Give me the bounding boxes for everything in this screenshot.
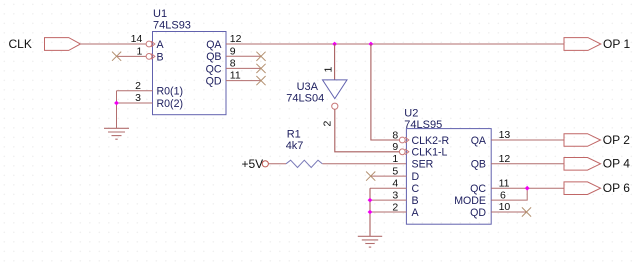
wire U2 QD stub bbox=[491, 211, 526, 213]
svg-text:OP 4: OP 4 bbox=[603, 157, 630, 171]
wire U1 QB stub bbox=[226, 55, 261, 57]
terminal OP 4 bbox=[564, 157, 630, 171]
svg-text:9: 9 bbox=[392, 141, 398, 153]
terminal OP 1 bbox=[564, 37, 630, 51]
inverter output bubble bbox=[332, 103, 338, 109]
junction node QA/inverter input bbox=[332, 42, 337, 47]
wire U2 pin A bbox=[370, 211, 406, 213]
svg-text:OP 1: OP 1 bbox=[603, 37, 630, 51]
svg-text:C: C bbox=[412, 183, 420, 195]
svg-text:R0(2): R0(2) bbox=[157, 98, 184, 110]
svg-text:U3A: U3A bbox=[297, 81, 319, 93]
svg-text:+5V: +5V bbox=[242, 157, 264, 171]
svg-text:13: 13 bbox=[499, 129, 511, 141]
power terminal +5V bbox=[242, 157, 269, 171]
svg-text:QC: QC bbox=[206, 63, 222, 75]
ground under U2 bbox=[358, 236, 382, 247]
svg-text:QA: QA bbox=[471, 135, 487, 147]
svg-text:R1: R1 bbox=[287, 129, 301, 141]
svg-text:R0(1): R0(1) bbox=[157, 86, 184, 98]
wire CLK to U1 pin A bbox=[81, 43, 147, 45]
svg-text:D: D bbox=[412, 171, 420, 183]
svg-text:4k7: 4k7 bbox=[286, 140, 304, 152]
terminal OP 2 bbox=[564, 133, 630, 147]
terminal CLK (input connector) bbox=[9, 37, 81, 51]
junction node pin A bbox=[368, 210, 373, 215]
no-connect X on U2 pin D bbox=[366, 172, 375, 181]
svg-text:OP 6: OP 6 bbox=[603, 181, 630, 195]
svg-text:A: A bbox=[157, 39, 165, 51]
wire vertical to ground under U1 bbox=[116, 91, 118, 129]
svg-text:A: A bbox=[412, 207, 420, 219]
IC U1 74LS93 body bbox=[153, 8, 227, 115]
resistor R1 4k7 bbox=[286, 129, 323, 168]
wire R1 to U2 SER bbox=[322, 163, 406, 165]
no-connect X on QC bbox=[256, 64, 265, 73]
pin A clock bubble of U1 bbox=[146, 41, 155, 47]
wire U2 QB to OP4 bbox=[491, 163, 564, 165]
svg-text:9: 9 bbox=[230, 45, 236, 57]
wire U2 MODE to QC net bbox=[491, 188, 527, 200]
inverter U3A 74LS04 bbox=[286, 80, 347, 105]
svg-text:QA: QA bbox=[206, 39, 222, 51]
svg-text:B: B bbox=[157, 51, 164, 63]
svg-text:12: 12 bbox=[499, 153, 511, 165]
ground under U1 bbox=[104, 128, 129, 139]
pin B clock bubble of U1 bbox=[146, 54, 155, 60]
svg-text:SER: SER bbox=[412, 159, 434, 171]
svg-text:CLK: CLK bbox=[9, 37, 32, 51]
svg-text:CLK2-R: CLK2-R bbox=[412, 135, 450, 147]
wire U1 pin B stub bbox=[117, 55, 147, 57]
no-connect X on U1 pin B bbox=[112, 52, 121, 61]
svg-text:QC: QC bbox=[470, 183, 486, 195]
svg-text:14: 14 bbox=[131, 33, 143, 45]
svg-text:11: 11 bbox=[230, 70, 241, 82]
wire U2 pin C bbox=[370, 187, 406, 189]
junction node on R0(2) bbox=[114, 101, 119, 106]
wire inverter output to U2 CLK1-L bbox=[335, 109, 400, 152]
wire U1 R0(2) bbox=[117, 102, 153, 104]
wire U2 QA to OP2 bbox=[491, 139, 564, 141]
junction node pin B bbox=[368, 198, 373, 203]
pin CLK2-R clock bubble bbox=[399, 137, 408, 143]
svg-text:1: 1 bbox=[323, 67, 335, 73]
svg-text:11: 11 bbox=[499, 177, 510, 189]
wire QA branch down to U2 CLK2-R bbox=[371, 44, 400, 140]
no-connect X on QD bbox=[256, 76, 265, 85]
svg-text:6: 6 bbox=[500, 189, 506, 201]
svg-text:10: 10 bbox=[499, 201, 511, 213]
junction node QC/MODE bbox=[525, 186, 530, 191]
pin CLK1-L clock bubble bbox=[399, 149, 408, 155]
svg-text:U2: U2 bbox=[404, 108, 418, 120]
no-connect X on QB bbox=[256, 52, 265, 61]
svg-text:8: 8 bbox=[230, 58, 236, 70]
svg-text:CLK1-L: CLK1-L bbox=[412, 147, 448, 159]
wire U1 QD stub bbox=[226, 80, 261, 82]
wire U1 QC stub bbox=[226, 67, 261, 69]
svg-text:8: 8 bbox=[392, 129, 398, 141]
svg-text:QD: QD bbox=[470, 207, 486, 219]
svg-text:12: 12 bbox=[230, 33, 242, 45]
svg-text:74LS95: 74LS95 bbox=[404, 119, 442, 131]
wire vertical C/B/A to ground bbox=[369, 188, 371, 236]
terminal OP 6 bbox=[564, 181, 630, 195]
svg-text:U1: U1 bbox=[153, 8, 167, 20]
junction node QA/U2 clk branch bbox=[369, 42, 374, 47]
svg-text:74LS04: 74LS04 bbox=[286, 93, 324, 105]
wire U1 QA to OP1 bbox=[226, 43, 564, 45]
svg-text:QB: QB bbox=[206, 51, 221, 63]
svg-text:1: 1 bbox=[392, 153, 398, 165]
wire U1 R0(1) bbox=[117, 90, 153, 92]
svg-text:MODE: MODE bbox=[454, 195, 486, 207]
svg-text:OP 2: OP 2 bbox=[603, 133, 630, 147]
svg-text:B: B bbox=[412, 195, 419, 207]
wire U2 QC to OP6 bbox=[491, 187, 564, 189]
svg-text:3: 3 bbox=[135, 92, 141, 104]
wire U2 pin B bbox=[370, 199, 406, 201]
no-connect X on U2 QD bbox=[522, 207, 531, 216]
wire U2 pin D stub bbox=[371, 175, 407, 177]
wire +5V to R1 bbox=[268, 163, 286, 165]
svg-text:QD: QD bbox=[206, 76, 222, 88]
svg-text:2: 2 bbox=[135, 80, 141, 92]
wire inverter input vertical bbox=[334, 44, 336, 80]
svg-text:QB: QB bbox=[471, 159, 486, 171]
svg-text:1: 1 bbox=[136, 46, 142, 58]
svg-text:74LS93: 74LS93 bbox=[153, 20, 191, 32]
svg-text:2: 2 bbox=[322, 121, 334, 127]
chip U2 74LS95 body bbox=[404, 108, 491, 225]
